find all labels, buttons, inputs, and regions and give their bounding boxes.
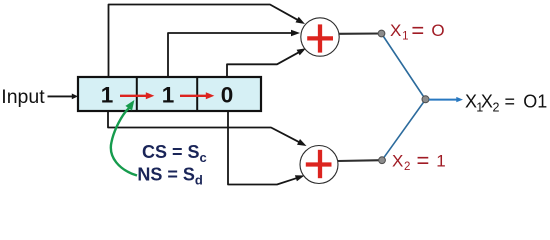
node N2: [379, 157, 386, 164]
red shift arrow S1 to S2: [120, 95, 147, 97]
svg-text:1: 1: [101, 83, 114, 108]
wire U1 output to node N1: [339, 32, 382, 34]
svg-text:NS = Sd: NS = Sd: [137, 165, 203, 188]
svg-text:X1X2 = O1: X1X2 = O1: [465, 92, 547, 115]
svg-text:1: 1: [162, 83, 175, 108]
blue wire node N1 to node N3: [382, 34, 426, 100]
blue wire node N2 to node N3: [382, 100, 426, 161]
arrowhead W5 into U2: [295, 175, 305, 181]
shift register box: [78, 77, 261, 111]
input arrow wire: [48, 95, 74, 97]
wire W3 from cell S3 top to adder U1: [227, 52, 299, 78]
node N3 output junction: [422, 96, 429, 103]
cell divider S2/S3: [196, 77, 198, 111]
wire W5 from cell S3 bottom to adder U2: [228, 110, 296, 185]
red shift arrow S2 to S3: [180, 95, 207, 97]
wire W2 from cell S2 top to adder U1: [168, 33, 292, 78]
svg-text:0: 0: [221, 83, 234, 108]
red plus of U2: [306, 150, 332, 178]
node N1: [378, 30, 385, 37]
arrowhead W4 into U2: [297, 139, 307, 146]
op-amp adder U2 circle: [300, 146, 338, 184]
svg-text:CS = Sc: CS = Sc: [142, 142, 207, 165]
svg-text:Input: Input: [1, 86, 45, 108]
arrowhead W3 into U1: [297, 48, 306, 55]
green annotation arrow to S1/S2 boundary: [111, 108, 137, 176]
svg-text:X1=O: X1=O: [390, 18, 445, 43]
arrowhead W2 into U1: [291, 30, 300, 36]
arrowhead W1 into U1: [296, 17, 306, 24]
blue output arrow from N3: [429, 99, 458, 101]
wire W4 from cell S1 bottom to adder U2: [108, 110, 300, 142]
wire U2 output to node N2: [338, 159, 382, 162]
op-amp adder U1 circle: [301, 18, 339, 56]
wire W1 from cell S1 top to adder U1: [109, 5, 298, 79]
red plus of U1: [307, 24, 333, 52]
svg-text:X2=1: X2=1: [392, 148, 446, 173]
cell divider S1/S2: [136, 77, 138, 111]
